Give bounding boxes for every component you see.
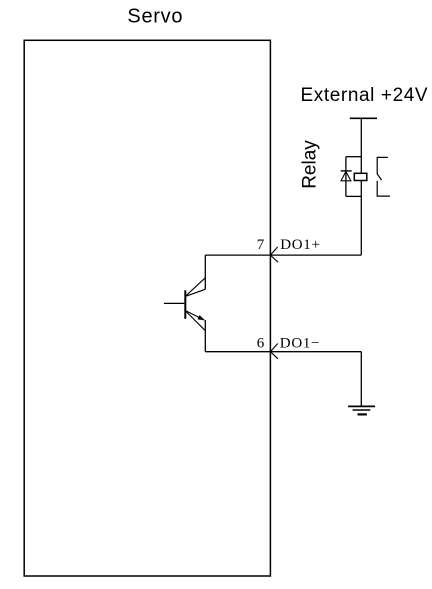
transistor Q emitter arrowhead <box>198 315 205 320</box>
transistor Q emitter fan lines <box>186 311 204 320</box>
wire: relay parallel branch bottom <box>346 195 361 197</box>
svg-text:External +24V: External +24V <box>301 85 429 106</box>
wire: relay parallel branch top <box>346 156 361 158</box>
relay K coil <box>354 173 367 180</box>
wire: DO1+ horizontal (pin 7 to relay branch) <box>205 254 361 256</box>
wire: +24V terminal down to relay coil <box>360 118 362 173</box>
wire: DO1- horizontal (pin 6 to ground branch) <box>205 351 361 353</box>
svg-text:Servo: Servo <box>127 5 183 27</box>
wire: DO1- down to ground <box>360 352 362 407</box>
transistor Q collector fan lines <box>186 278 205 296</box>
transistor collector wire <box>204 255 206 289</box>
relay contact lower arm <box>377 181 390 196</box>
svg-text:Relay: Relay <box>299 140 320 189</box>
junction arrow at pin 6 <box>270 344 277 352</box>
svg-text:6: 6 <box>257 336 265 352</box>
+24V supply terminal bar <box>350 117 377 119</box>
transistor emitter wire <box>204 320 206 352</box>
diode: flyback diode across relay coil (cathode bar) <box>341 170 352 172</box>
transistor Q base bar <box>184 290 186 319</box>
svg-text:DO1−: DO1− <box>280 336 320 352</box>
relay contact upper arm <box>377 157 388 180</box>
svg-text:DO1+: DO1+ <box>280 237 320 253</box>
transistor Q base lead <box>164 302 184 304</box>
wire: relay parallel branch left <box>345 157 347 197</box>
diode: flyback diode triangle <box>341 172 351 181</box>
wire: relay coil to DO1+ node <box>360 181 362 256</box>
servo box <box>24 40 270 576</box>
ground symbol <box>348 405 375 407</box>
junction arrow at pin 7 <box>270 247 277 255</box>
svg-text:7: 7 <box>257 237 265 253</box>
